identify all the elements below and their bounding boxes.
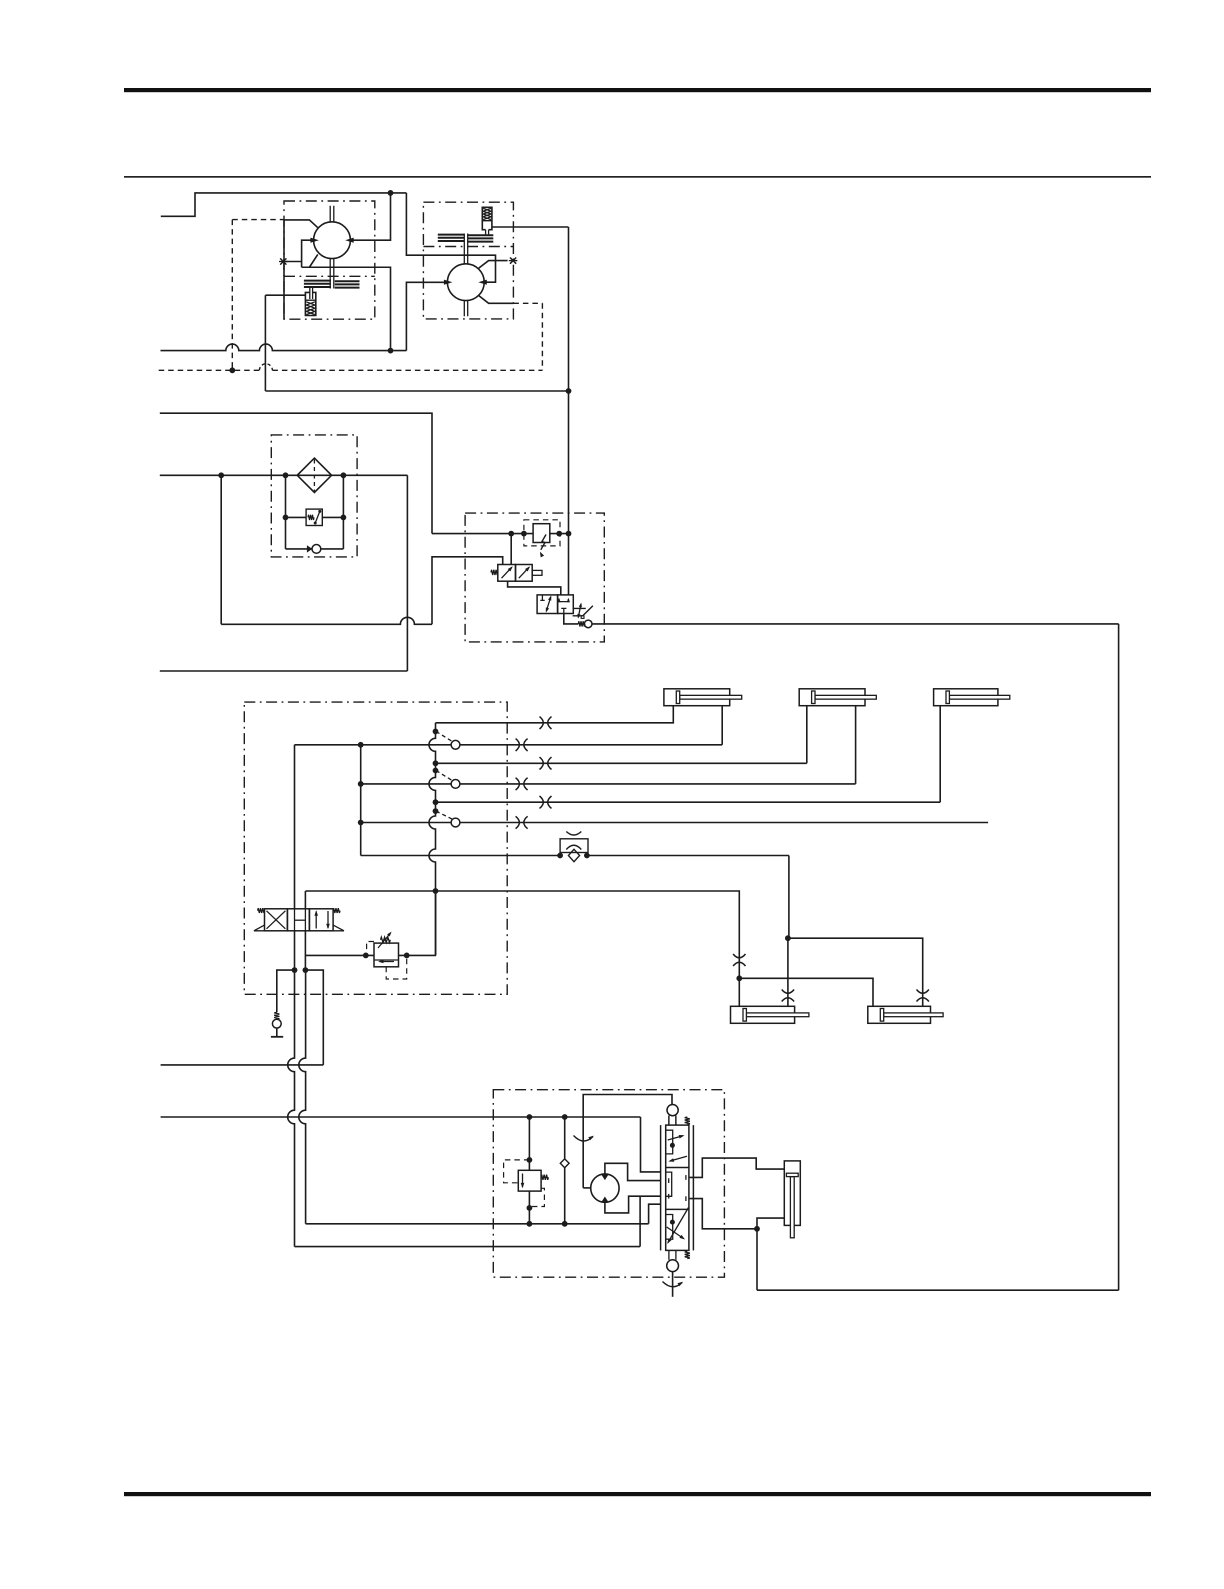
wire pump P2 left port from tank riser xyxy=(406,282,446,350)
node cock feed 3 xyxy=(358,820,364,826)
spool bottom stem xyxy=(669,1250,676,1260)
clutch pack P1 right plates xyxy=(335,280,360,282)
node relief pilot xyxy=(527,1157,533,1163)
node return relief xyxy=(527,1221,533,1227)
node lift branch xyxy=(736,975,742,981)
P1 enclosure divider xyxy=(284,275,375,277)
HST pump P2 dash-dot enclosure xyxy=(423,202,513,319)
node reducing valve in xyxy=(363,953,369,959)
charge relief valve body xyxy=(533,524,550,543)
node branch line 3 xyxy=(433,760,439,766)
rotor link top circle xyxy=(667,1105,678,1116)
line to cylinder C1 head xyxy=(436,706,674,723)
P2 enclosure divider xyxy=(423,246,513,248)
pump P2 port arrows xyxy=(444,280,453,285)
servo spring P2 xyxy=(483,208,491,219)
filter bypass right branch xyxy=(342,475,344,549)
charge line through relief xyxy=(432,533,569,535)
gerotor top port loop xyxy=(605,1163,661,1180)
tank return bottom line xyxy=(160,670,408,672)
servo piston P1 xyxy=(305,299,315,301)
valve block dash-dot enclosure xyxy=(465,513,604,642)
bypass check valve seat xyxy=(307,545,312,552)
spool bottom circle xyxy=(667,1260,679,1272)
branch to pilot valve xyxy=(510,534,512,565)
servo control riser xyxy=(264,295,266,391)
feed drop into spool xyxy=(641,1117,661,1172)
dashed drain line common xyxy=(159,369,260,371)
pressure compensator flag xyxy=(573,606,593,616)
pump P1 swash yoke linkage xyxy=(302,240,318,267)
gerotor inner triangles xyxy=(601,1175,608,1181)
valve T-port drop xyxy=(294,931,296,970)
cylinder C4 body xyxy=(731,1006,795,1023)
node relief drain pilot xyxy=(527,1205,533,1211)
node filter outlet xyxy=(341,472,347,478)
middle port ticks right xyxy=(685,1175,687,1180)
tilt riser xyxy=(787,938,789,1006)
node steering check branch xyxy=(562,1114,568,1120)
blocked port X pump P1 xyxy=(280,258,286,264)
middle section port notch xyxy=(666,1172,672,1196)
node dashed drain junction xyxy=(229,367,235,373)
servo piston P2 xyxy=(482,220,492,222)
lower section port notch xyxy=(666,1215,673,1240)
left return spring xyxy=(254,925,265,931)
steering shaft lower xyxy=(672,1272,674,1297)
gang valve dash-dot enclosure xyxy=(244,702,507,994)
reducing valve inner arrow xyxy=(380,961,395,963)
steering cylinder piston bar xyxy=(786,1173,798,1176)
wire to valve block lower port with hop xyxy=(221,617,432,624)
quick coupler lower jaw xyxy=(566,845,581,849)
pilot valve outlet to flow valve xyxy=(508,581,561,595)
steering return line xyxy=(306,1223,649,1225)
pilot valve plunger box xyxy=(532,570,542,575)
page bottom rule xyxy=(124,1492,1151,1496)
check ball xyxy=(272,1019,281,1028)
coupler supply line xyxy=(361,856,789,939)
servo piston rod P1 xyxy=(310,288,313,299)
steering pilot bottom run xyxy=(757,1289,1119,1291)
flow control valve right cell xyxy=(558,595,574,614)
steering feed line with hops xyxy=(161,1116,641,1118)
P-port branch to supply riser xyxy=(305,970,323,1065)
clutch pack P2 left plates xyxy=(438,234,464,236)
node filter inlet xyxy=(283,472,289,478)
coupler check poppet xyxy=(568,849,579,861)
clutch pack P2 right plates xyxy=(468,234,493,236)
left cell crossed arrows xyxy=(267,911,286,929)
return riser B with hops xyxy=(299,970,306,1224)
valve B-port riser from lift line xyxy=(304,891,306,909)
upper section port notch xyxy=(666,1130,673,1154)
cock feed riser xyxy=(360,745,362,856)
node tank riser junction xyxy=(388,348,394,354)
lift supply line xyxy=(305,891,739,1006)
cylinder C3 body xyxy=(934,689,998,706)
node relief branch xyxy=(508,531,514,537)
right return spring xyxy=(333,925,344,931)
line via cock V3 open ended xyxy=(361,822,988,824)
outlet check ball xyxy=(584,620,592,628)
node steer pilot tee xyxy=(754,1226,760,1232)
node filter branch left outer xyxy=(218,472,224,478)
return into spool xyxy=(649,1204,661,1224)
servo piston rod P2 xyxy=(486,230,489,236)
cock valve V1 xyxy=(451,740,460,749)
reducing valve feed line xyxy=(306,891,436,955)
cylinder C2 body xyxy=(799,689,865,706)
steer cylinder port B path xyxy=(689,1199,784,1229)
pump P2 case drain to dashed return xyxy=(479,296,514,304)
dashed link to pump P1 case xyxy=(232,219,284,221)
node bypass switch right xyxy=(341,515,347,521)
flow valve internal port tee xyxy=(561,608,566,613)
filter element dashed axis xyxy=(313,460,315,492)
steering tank line xyxy=(295,1246,641,1248)
riser into valve block xyxy=(432,557,503,625)
outlet orifice spring xyxy=(578,621,585,626)
steer cylinder port A path xyxy=(689,1158,784,1177)
solenoid pilot valve left cell xyxy=(498,565,516,582)
charge line to servos xyxy=(265,390,568,392)
node bypass switch left xyxy=(283,515,289,521)
pump P1 drive shaft xyxy=(330,206,334,289)
servo P2 control line to charge junction xyxy=(492,226,569,228)
center cell links xyxy=(295,919,305,921)
spool section lines xyxy=(666,1167,689,1169)
long pilot line to steering unit xyxy=(592,623,1119,625)
steering pilot down the right margin xyxy=(1118,624,1120,1290)
node coupler left xyxy=(557,853,563,859)
quick coupler upper jaw xyxy=(566,832,581,836)
node charge line junction xyxy=(566,388,572,394)
rotor link stem xyxy=(669,1116,676,1126)
pilot valve arrows xyxy=(502,567,512,578)
upper section arrow left xyxy=(670,1156,687,1161)
clogging switch wires xyxy=(286,516,307,518)
wire tank return from filter line xyxy=(406,475,408,671)
steering check riser xyxy=(564,1117,566,1224)
valve A-port riser xyxy=(294,745,296,909)
suction line to filter xyxy=(160,474,408,476)
page top rule xyxy=(124,88,1151,92)
cock valve V2 xyxy=(451,780,460,789)
node upper spool xyxy=(670,1143,675,1148)
pump P2 drive shaft xyxy=(464,234,467,317)
flow control valve left cell xyxy=(537,595,558,614)
steering spool right rail xyxy=(692,1125,694,1250)
pump P2 circle xyxy=(447,264,484,301)
line to cylinder C3 head xyxy=(436,706,941,802)
node lift line junction xyxy=(433,888,439,894)
reducing valve bottom strip xyxy=(374,959,399,961)
gerotor motor circle xyxy=(591,1174,619,1202)
tank drop into spool xyxy=(639,1196,641,1246)
lower section cross arrows xyxy=(668,1208,689,1243)
pump P1 port arrows xyxy=(310,238,319,243)
page header underline xyxy=(124,176,1151,178)
node dashed link 3 xyxy=(433,808,439,814)
pressure reducing valve body xyxy=(374,943,399,967)
reducing valve spring and setting arrow xyxy=(381,937,391,942)
wire X to yoke xyxy=(286,261,302,263)
steering relief riser xyxy=(528,1117,530,1170)
valve block outlet drop xyxy=(564,614,579,624)
steering column rotation arc xyxy=(574,1136,594,1142)
line to cylinder C2 rod via cock V2 xyxy=(361,706,856,784)
node dashed link 1 xyxy=(433,729,439,735)
node branch line 5 xyxy=(433,799,439,805)
gerotor feed loop top xyxy=(583,1095,672,1188)
charge pressure riser to valve block xyxy=(568,227,570,595)
tilt branch to cylinder C5 rod xyxy=(788,938,923,1006)
gerotor bottom port loop xyxy=(605,1196,661,1213)
charge relief valve arrow xyxy=(541,535,546,550)
wire filter outlet drop xyxy=(220,475,222,624)
clogging indicator switch box xyxy=(306,509,322,525)
pilot valve solenoid xyxy=(491,570,498,575)
reducing valve dashed pilot right xyxy=(386,955,407,979)
line to cylinder C1 rod via cock V1 xyxy=(295,706,723,745)
quick coupler body xyxy=(560,839,588,853)
solenoid pilot valve right cell xyxy=(516,565,533,582)
anti-cavitation check branch xyxy=(277,970,295,1012)
node pilot left xyxy=(521,531,527,537)
bypass check valve ball xyxy=(312,545,321,554)
filter bypass left branch xyxy=(285,475,287,549)
cylinder C1 body xyxy=(664,689,730,706)
servo P1 control line xyxy=(265,294,305,296)
node P-port xyxy=(303,967,309,973)
node return check xyxy=(562,1221,568,1227)
charge relief valve dashed pilot box xyxy=(524,520,560,546)
steering spool body xyxy=(666,1125,689,1250)
steering cylinder C6 body xyxy=(784,1161,800,1226)
tank suction line with hose hops xyxy=(161,344,407,350)
steering relief spring xyxy=(541,1175,548,1180)
valve P-port drop xyxy=(304,931,306,970)
spool top spring xyxy=(685,1117,690,1124)
main control valve center cell xyxy=(287,909,309,931)
upper section arrow right xyxy=(668,1136,683,1140)
main control valve right cell xyxy=(309,909,333,931)
filter bypass check valve line xyxy=(286,548,312,550)
cock manifold riser with hops xyxy=(429,723,436,956)
pump P1 case drain port line xyxy=(284,220,318,228)
wire pump P1 yoke drain to tank riser xyxy=(302,267,391,350)
node lower spool xyxy=(670,1220,675,1225)
relief dashed pilot right xyxy=(529,1188,544,1206)
node T-port xyxy=(292,967,298,973)
flow valve metering arrow xyxy=(546,597,551,611)
cock valve V3 xyxy=(451,818,460,827)
steering unit dash-dot enclosure xyxy=(493,1090,724,1278)
line to cylinder C2 head xyxy=(436,706,807,764)
flow valve left port tee xyxy=(540,595,544,601)
relief dashed pilot left xyxy=(504,1160,530,1183)
spool top stem xyxy=(669,1116,676,1126)
node pilot right xyxy=(556,531,562,537)
valve spool pass-through lines xyxy=(294,909,296,931)
pump P1 case drain riser xyxy=(283,220,285,319)
servo cylinder P1 body xyxy=(305,292,315,315)
node cock feed 1 xyxy=(358,742,364,748)
gerotor left port line xyxy=(583,1187,591,1189)
cylinder C5 body xyxy=(868,1006,931,1023)
pump P2 blocked port line with X xyxy=(479,261,508,269)
pump P1 circle xyxy=(314,222,351,259)
spool bottom spring xyxy=(685,1251,690,1258)
wire supply step from left edge xyxy=(161,193,407,216)
tank symbol bar xyxy=(271,1036,283,1038)
check tank stub xyxy=(276,1028,278,1037)
filter element diamond xyxy=(297,458,331,492)
check spring xyxy=(274,1012,279,1019)
middle port ticks left xyxy=(668,1178,670,1183)
lower rotation arc xyxy=(663,1282,683,1287)
clutch pack P1 left plates xyxy=(304,280,331,282)
flow valve top bracket xyxy=(559,599,568,602)
main control valve body left cell xyxy=(265,909,288,931)
right cell flow arrows xyxy=(315,912,317,929)
main pressure feed into valve block xyxy=(160,413,432,533)
steering pilot riser to cylinder line xyxy=(756,1229,758,1290)
lift branch to cylinder C5 xyxy=(739,978,873,1006)
right solenoid W xyxy=(333,908,340,913)
servo spring P1 xyxy=(306,302,315,315)
servo cylinder P2 body xyxy=(482,207,492,229)
dashed drain riser to pump group xyxy=(231,220,233,371)
steering check valve poppet xyxy=(560,1159,569,1168)
node coupler right xyxy=(584,853,590,859)
left solenoid W xyxy=(258,908,265,913)
HST pump P1 dash-dot enclosure xyxy=(284,201,375,319)
node cock feed 2 xyxy=(358,781,364,787)
node charge riser xyxy=(566,531,572,537)
steering spool left rail xyxy=(660,1125,662,1250)
filter unit dash-dot enclosure xyxy=(271,435,357,557)
steering relief valve body xyxy=(518,1170,541,1191)
tilt line junction node xyxy=(785,935,791,941)
node steering relief branch xyxy=(527,1114,533,1120)
steering relief drain xyxy=(528,1191,530,1224)
return riser A with hops xyxy=(288,970,295,1247)
cock V3 dashed actuator link xyxy=(436,811,453,819)
reducing valve dashed pilot left xyxy=(367,942,374,956)
supply line lower left with hops on risers xyxy=(161,1064,324,1066)
node dashed link 2 xyxy=(433,768,439,774)
dashed case drain riser P2 xyxy=(541,303,543,370)
steering relief inner arrow xyxy=(522,1174,524,1188)
node reducing valve out xyxy=(404,953,410,959)
wire vertical to pump P1 right port xyxy=(351,193,391,240)
node junction top supply xyxy=(388,190,394,196)
wire from top line down to pump P2 inlet xyxy=(406,193,495,282)
cock V1 dashed actuator link xyxy=(436,731,453,741)
steering cylinder rod xyxy=(790,1177,794,1238)
cock V2 dashed actuator link xyxy=(436,771,453,781)
